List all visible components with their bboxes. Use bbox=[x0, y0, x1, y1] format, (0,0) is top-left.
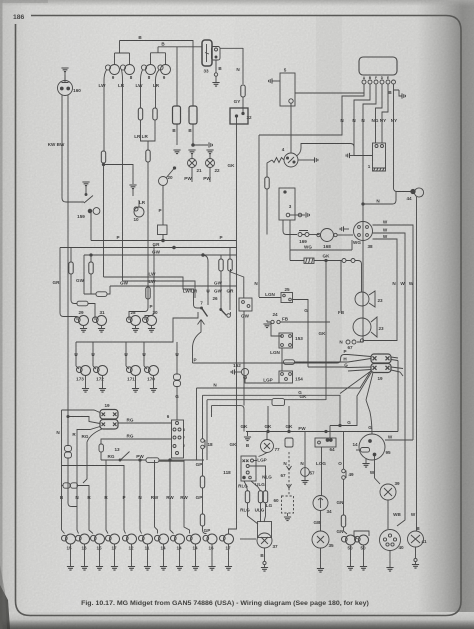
wire GK branch down bbox=[325, 261, 327, 401]
wire W from 95 right bbox=[385, 439, 413, 441]
number plate lamp 50b bbox=[355, 535, 369, 545]
5 inner terminal bbox=[289, 99, 293, 103]
fuse on N wire bbox=[241, 85, 245, 97]
warning lamp 16b bbox=[203, 534, 217, 544]
wire W2 from 38 bbox=[373, 233, 406, 513]
wire G corner down to 18 bbox=[202, 395, 204, 438]
wire N3 long down bbox=[357, 124, 363, 342]
wire GN to lamps 50 bbox=[344, 527, 348, 534]
wire into 37 left bbox=[240, 538, 256, 540]
wire 3 to ignition bus bbox=[283, 220, 297, 235]
wire LOG 64 down to 34 bbox=[321, 447, 323, 496]
ground 14c bbox=[192, 544, 199, 570]
inline fuse horizontal y294 bbox=[84, 286, 110, 296]
wire x184 drop bbox=[184, 460, 190, 534]
side lamp 173 bbox=[76, 366, 91, 376]
fuse ULG bbox=[251, 481, 263, 503]
wire GR left leg down to lamp 29 bbox=[60, 248, 77, 321]
terminal pins bbox=[362, 80, 396, 84]
wire from 5 to ignition switch 4 bbox=[290, 103, 292, 153]
FW bus bbox=[246, 431, 398, 433]
wire 25 to G drop bbox=[293, 300, 309, 368]
GW distribution line bbox=[110, 285, 237, 287]
fuse on GP lower bbox=[200, 514, 204, 526]
arrows on 67 lead bbox=[287, 466, 292, 488]
ground under 60 bbox=[284, 513, 291, 521]
wire LGP into 154 bbox=[245, 377, 279, 383]
wire NLG from box bbox=[249, 466, 265, 491]
tiny colour labels above bottom lamps bbox=[60, 495, 189, 500]
voltage stabiliser 154 bbox=[279, 371, 293, 383]
ground 14b bbox=[176, 544, 183, 570]
wire N2 into fusebox 1 bbox=[354, 155, 373, 157]
sender switch 24 bbox=[267, 320, 330, 324]
wire x170 drop bbox=[170, 460, 174, 534]
3 inner dot bbox=[284, 191, 286, 193]
fuel pump 37 bbox=[257, 522, 272, 549]
wire LR long down to lamp 28 bbox=[147, 162, 149, 288]
ground arrow right of block bbox=[399, 90, 405, 99]
ignition warning lamp 44 bbox=[411, 188, 424, 197]
GR bus bbox=[60, 247, 237, 249]
fuse NLG2 bbox=[263, 491, 267, 503]
ground under 33 bbox=[212, 83, 219, 87]
ground under 50a bbox=[347, 545, 354, 570]
wire LR to lamp 28 bbox=[129, 288, 148, 320]
ground under 31 bbox=[98, 326, 105, 333]
wire H to connector fan bbox=[295, 361, 349, 363]
fuse on GP bbox=[200, 476, 204, 488]
wire N rail down to 25 bbox=[258, 135, 260, 297]
ballast resistor squiggle left of 4 bbox=[272, 158, 284, 163]
ground under 95 bbox=[362, 458, 369, 467]
wire x77 to lamp 16 bbox=[77, 530, 79, 534]
wire O to 49 bbox=[343, 432, 345, 470]
wire 168 to 38 bbox=[337, 234, 353, 236]
B bus lower bbox=[158, 47, 243, 49]
inline fuse H between 153/154 bbox=[284, 360, 295, 365]
flasher unit box bbox=[158, 225, 168, 235]
wire LR lamp9b down bbox=[156, 70, 160, 108]
wire U drop 177 to connector bbox=[176, 342, 178, 374]
junction dot earth rail bbox=[192, 144, 195, 147]
warning lamp 12 bbox=[123, 534, 137, 544]
wire x61 to lamp 15 bbox=[62, 530, 65, 534]
motor 35 bbox=[312, 531, 329, 548]
3 lower contacts to ground bbox=[286, 212, 309, 217]
ignition coil 39 bbox=[380, 484, 396, 500]
wire flasher can riser bbox=[176, 47, 178, 106]
switch 159 contacts bbox=[88, 208, 100, 215]
connector block 19 upper bbox=[371, 354, 391, 363]
hazard switch 95 bbox=[359, 434, 385, 460]
wire GN down bbox=[343, 480, 345, 516]
fuse left of 4 bbox=[265, 177, 269, 189]
flasher unit 160 bbox=[58, 75, 73, 96]
fan wires into connector 19 left bbox=[348, 355, 371, 372]
wire RG lower to 6 bbox=[101, 439, 172, 444]
wire GW leg down bbox=[83, 255, 85, 294]
connector 49 bbox=[342, 469, 346, 479]
heater motor 77 bbox=[261, 432, 274, 453]
headlamp 9b bbox=[158, 65, 171, 75]
wire fuse2 branch to washer box bbox=[231, 269, 244, 298]
33 side unit bbox=[212, 47, 221, 61]
inline fuse on PW bbox=[146, 458, 159, 463]
ground 14a bbox=[160, 544, 167, 570]
ground under 171 bbox=[132, 376, 139, 393]
wire U to switch 7 bbox=[202, 255, 208, 305]
wire P corner up to switch 7 bbox=[193, 320, 202, 364]
connector block 19 left bbox=[100, 410, 118, 430]
wire 169 to 168 bbox=[309, 234, 319, 236]
wire 4 to ground arrow bbox=[298, 157, 318, 162]
inline fuse GK bbox=[304, 258, 314, 263]
wire from box3 bottom to GK fuse line bbox=[289, 220, 291, 261]
junction dot N3 bbox=[362, 203, 364, 205]
junction dot LW bbox=[102, 163, 104, 165]
connector 18 bbox=[201, 439, 205, 449]
fuse chain to lamp 31 bbox=[69, 248, 77, 304]
wire 20 down to flasher box bbox=[162, 186, 164, 226]
warning lamp 14c bbox=[187, 534, 201, 544]
tail lamp 31 bbox=[93, 316, 107, 326]
ignition switch 4 bbox=[284, 153, 298, 167]
fuse on GN bbox=[341, 515, 345, 527]
headlamp 9 bbox=[105, 65, 119, 75]
wire GK drops from fuse to FW bus bbox=[244, 406, 289, 432]
wire LGN into 25 bbox=[259, 297, 281, 299]
side lamp 172 bbox=[93, 366, 108, 376]
fuse on LR merged wire bbox=[146, 150, 150, 162]
wires from flasher cans to earth rail bbox=[177, 124, 208, 145]
33 inner contact bbox=[205, 44, 209, 62]
wire squiggle to fuse bbox=[267, 160, 272, 177]
fuse 230 bbox=[228, 259, 232, 271]
switch 26 bbox=[220, 309, 231, 318]
ground under 35 bbox=[317, 548, 324, 572]
bottom lamp row feeds bbox=[65, 445, 69, 452]
wire GP to lamp 16b bbox=[203, 526, 207, 534]
wire washer box down to FW bbox=[243, 311, 245, 406]
junction dot feed2 bbox=[67, 415, 69, 417]
lighting switch block (top right) bbox=[359, 57, 397, 75]
gutter shadow bottom-left bbox=[0, 585, 10, 629]
wire GK line with connector circles bbox=[290, 259, 362, 293]
ground left of 77 bbox=[244, 432, 251, 449]
wire x106 drop bbox=[106, 460, 108, 534]
wire B stem 37 to ground bbox=[260, 548, 268, 571]
wire feed 50b bbox=[354, 531, 369, 539]
wire 159 to P bus bbox=[90, 213, 92, 241]
ground stack above lamp 22 bbox=[206, 150, 213, 154]
wire x140 drop bbox=[140, 460, 142, 534]
fuse on LW2 wire bbox=[138, 108, 142, 120]
panel lamp 17a bbox=[106, 534, 120, 544]
ground under 57 bbox=[301, 477, 308, 485]
ground arrow left of 38 bbox=[340, 226, 349, 231]
wire LW continues down bbox=[103, 163, 105, 277]
connector 14 on 95 bbox=[356, 448, 370, 453]
fuse on LR at 288 bbox=[146, 287, 150, 299]
wire PW from 21 bbox=[191, 168, 193, 183]
thick joint under 6 bbox=[159, 460, 184, 462]
wire N from B bus down to 32 bbox=[242, 48, 244, 114]
wire KW from 160 down to switch 159 bbox=[62, 95, 84, 202]
wire from GW bus to fuse 221 bbox=[220, 255, 222, 259]
tail lamp 30 bbox=[143, 316, 157, 326]
headlamp 8 bbox=[120, 65, 134, 75]
tail lamp 28 bbox=[127, 316, 141, 326]
junction dot GW leg bbox=[90, 254, 92, 256]
ground above 10 bbox=[129, 185, 136, 189]
distributor 40 bbox=[380, 530, 401, 551]
connector 67b inline bbox=[346, 340, 356, 344]
wire W1 from 38 bbox=[373, 225, 414, 440]
32 terminals bbox=[235, 112, 244, 117]
2-pin connector on 177 bbox=[174, 374, 181, 387]
instrument lamp 152 bbox=[235, 368, 249, 379]
wire G lower run bbox=[330, 419, 357, 426]
fuse 221 bbox=[219, 259, 223, 271]
inline fuse to 31 bbox=[77, 301, 95, 320]
ground under 28 bbox=[132, 326, 139, 333]
wires converge into 37 bbox=[248, 503, 266, 524]
junction dot P-flasher bbox=[162, 239, 165, 242]
fuel gauge unit 25 bbox=[281, 293, 293, 303]
heater switch 64 bbox=[315, 426, 336, 448]
switch 13 bbox=[101, 452, 130, 462]
wire LW lamp9 down bbox=[104, 70, 107, 151]
wire 77 into box bbox=[259, 453, 268, 457]
wire BW from 160 down to connector bbox=[67, 95, 69, 445]
panel lamp 15b bbox=[91, 534, 105, 544]
wire x154 drop bbox=[155, 460, 158, 534]
fan diagonals from 19 lower-left bbox=[340, 371, 373, 419]
wire B stem 41 to ground bbox=[412, 547, 419, 568]
wire PW from 22 bbox=[209, 168, 211, 183]
wire BW below connector bbox=[68, 458, 77, 507]
inline connector horizontal bbox=[63, 483, 78, 488]
warning lamp 14a bbox=[155, 534, 169, 544]
headlamp relay 33 bbox=[202, 40, 212, 66]
ground 17a bbox=[111, 544, 118, 570]
wire N horizontal to 44 riser bbox=[363, 192, 396, 205]
warning lamp 14b bbox=[171, 534, 185, 544]
wire W3 from 38 bbox=[373, 239, 398, 341]
wire NY into fusebox 1 bbox=[381, 124, 383, 143]
wire into 19 lower row bbox=[68, 417, 100, 424]
Y feed pair 1 bbox=[115, 41, 130, 65]
wire P to lamp 30 bbox=[145, 245, 154, 320]
ground 15b bbox=[96, 544, 103, 570]
wire branch to ground10 bbox=[104, 165, 134, 185]
wire pin A to N drop bbox=[342, 84, 364, 124]
subtle scan streaks bbox=[200, 16, 234, 612]
wire LR lamp8 down bbox=[122, 70, 123, 281]
wire GP between fuses bbox=[202, 488, 204, 514]
fuse block base hatch bbox=[373, 168, 386, 171]
ground under 173 bbox=[82, 376, 89, 393]
ground arrow end of earth rail bbox=[209, 142, 212, 147]
wire GK line through fuse bbox=[207, 399, 326, 401]
junction dot GR bbox=[173, 246, 176, 249]
wire FB riser bbox=[340, 261, 342, 311]
wire G line bbox=[203, 395, 341, 425]
horn terminal and wire to W3 bbox=[360, 339, 397, 342]
warning lamp 11 bbox=[139, 534, 153, 544]
third line to GK drop bbox=[212, 406, 245, 425]
courtesy lamp 10 bbox=[134, 207, 144, 217]
U drop to 170 bbox=[143, 342, 145, 366]
chevron ground left of fuse feed bbox=[346, 153, 354, 158]
wiper switch 6 bbox=[172, 420, 184, 458]
ground under 172 bbox=[99, 376, 106, 393]
horn 23 upper bbox=[355, 291, 375, 307]
ground above flasher unit 160 bbox=[61, 68, 68, 72]
wire G to connector fan bbox=[308, 366, 348, 369]
wire WB 39 to 40 bbox=[387, 500, 389, 529]
fuse on GW leg 91 bbox=[89, 255, 93, 294]
starter motor 41 bbox=[408, 531, 424, 547]
top-left corner smudge bbox=[0, 0, 48, 3]
wire gnd to lamp 21 bbox=[191, 154, 193, 159]
fuse block 1 pins bbox=[375, 145, 384, 148]
wire P bus lower bbox=[193, 355, 349, 364]
junction dot G bbox=[339, 424, 341, 426]
gauge 153 bbox=[279, 333, 293, 348]
dashed unit 60 bbox=[282, 496, 294, 513]
wire LGP stub bbox=[254, 460, 258, 462]
side lamp 170 bbox=[144, 366, 159, 376]
ground 11 bbox=[144, 544, 151, 570]
wire 19 left exit to drop 77x bbox=[77, 427, 100, 531]
wire pin B to N drop bbox=[354, 84, 370, 124]
ground 16b bbox=[208, 544, 215, 570]
ignition coil 168 bbox=[317, 229, 337, 242]
side lamp 171 bbox=[126, 366, 141, 376]
fuse RLG bbox=[244, 481, 250, 503]
svg-text:Fig. 10.17. MG Midget from GAN: Fig. 10.17. MG Midget from GAN5 74886 (U… bbox=[81, 600, 369, 607]
wire N1 bend to left rail bbox=[259, 124, 342, 135]
heater blower 34 bbox=[313, 496, 328, 511]
junction dots FW bbox=[267, 430, 327, 432]
ground stack above lamp 21 bbox=[188, 150, 195, 154]
LR line to switch 7 bbox=[123, 281, 196, 298]
flasher can left bbox=[173, 106, 181, 124]
connector on BW wire bbox=[65, 446, 72, 459]
ground 16a bbox=[81, 544, 88, 570]
switch 159 lever bbox=[84, 186, 93, 203]
wire N2 down bbox=[353, 124, 355, 156]
headlamp 8b bbox=[141, 65, 155, 75]
wire 153 to 154 bbox=[281, 348, 283, 371]
wire drop x61 bbox=[61, 410, 63, 530]
wire RG 19 to 6 upper bbox=[118, 422, 172, 424]
ground 15a bbox=[67, 544, 74, 570]
wire GK corner down bbox=[206, 400, 208, 460]
ground 17b bbox=[225, 544, 232, 570]
wire W from connector down bbox=[398, 361, 403, 432]
ground stack under can rail bbox=[173, 150, 180, 154]
wire from GR bus to fuse 230 bbox=[229, 248, 231, 260]
junction dot GK bbox=[325, 259, 327, 261]
warning lamp 21 bbox=[188, 159, 197, 168]
wire stub to ground bbox=[215, 76, 217, 82]
wire fuse down to bus bbox=[266, 189, 268, 235]
wire gnd to lamp 22 bbox=[209, 154, 211, 159]
oil switch 57 bbox=[301, 432, 310, 477]
lower distribution line RG/PW bbox=[101, 459, 204, 461]
small box on GK at 438 bbox=[285, 438, 293, 447]
wire riser from switch 4 to fuse feed bbox=[297, 144, 355, 157]
flasher can right bbox=[189, 106, 197, 124]
wire pin E to NY drop bbox=[382, 84, 388, 124]
horn relay 32 box bbox=[230, 108, 248, 124]
connector rect 13 feed bbox=[99, 444, 103, 452]
terminal circle bbox=[214, 73, 217, 76]
ground under 30 bbox=[148, 326, 155, 333]
wire GK from 32 down (long, to lamp 17) bbox=[229, 117, 237, 534]
wire NG into fusebox 1 bbox=[375, 124, 377, 143]
dashed lead 67 bbox=[288, 452, 290, 496]
wire x211 down bbox=[211, 406, 213, 417]
ground 12 bbox=[128, 544, 135, 570]
fuse on LW headlamp wire bbox=[101, 151, 105, 163]
lighting relay box bbox=[241, 456, 256, 481]
U bus bbox=[76, 312, 198, 342]
wire connector to switch 6 bbox=[176, 387, 178, 421]
panel lamp 15a bbox=[62, 534, 76, 544]
ground under 29 bbox=[80, 326, 87, 333]
P bus bbox=[91, 240, 237, 242]
wire into 19 top row bbox=[62, 410, 101, 413]
U drop to 171 bbox=[125, 342, 127, 366]
warning lamp 17b bbox=[220, 534, 234, 544]
wire flasher to P bus bbox=[162, 235, 164, 241]
wire N rail from 388 corner bbox=[196, 388, 198, 460]
wire B stub bbox=[215, 60, 217, 73]
inline fuse on GK line bbox=[272, 399, 285, 406]
wire RG exit to connector bbox=[83, 429, 102, 483]
fuse on LR2 wire bbox=[153, 108, 157, 120]
5 left ground arrow bbox=[269, 78, 280, 83]
horn 23 lower bbox=[353, 317, 377, 337]
wire GW to switch 26 bbox=[220, 271, 222, 308]
junction dots on PW line bbox=[139, 459, 171, 461]
inline connector 169 bbox=[298, 231, 309, 237]
wire LW lamp8b down bbox=[141, 70, 143, 108]
connector block 19 lower bbox=[371, 364, 391, 373]
wire W2 jog into 40 bbox=[397, 513, 405, 526]
panel lamp 16a bbox=[76, 534, 90, 544]
ground under 170 bbox=[150, 376, 157, 393]
U drop to 172 bbox=[92, 342, 94, 366]
switch 7 bbox=[198, 307, 208, 325]
wire pin A branch to unit 5 bbox=[295, 92, 364, 94]
152 ground arrow bbox=[231, 369, 234, 374]
junction dot GW bbox=[202, 254, 205, 257]
ground under 24 bbox=[263, 324, 270, 328]
wire pin 6 to NY drop bbox=[394, 84, 400, 124]
wire connector to x89 drop bbox=[78, 486, 94, 534]
junction connector line y485 bbox=[62, 485, 64, 487]
wire WG from 38 bottom bbox=[290, 240, 352, 250]
ground under 50b bbox=[360, 545, 367, 570]
distributor 38 bbox=[354, 222, 373, 241]
Y feed pair 2 bbox=[151, 47, 166, 65]
switch 159 ground bbox=[82, 182, 89, 186]
